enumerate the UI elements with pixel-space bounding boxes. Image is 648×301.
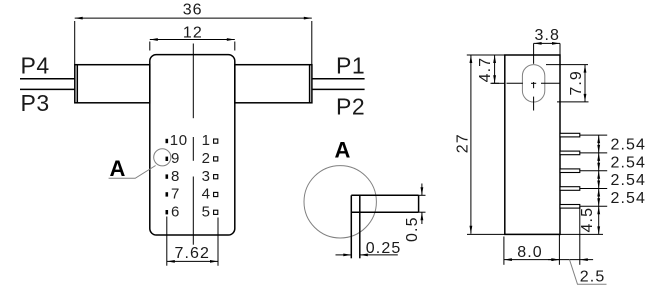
svg-text:7.9: 7.9: [568, 70, 585, 96]
side top extension line: [467, 54, 505, 56]
dimension 3.8: [534, 27, 560, 55]
svg-text:12: 12: [183, 25, 203, 42]
oval vertical centerline: [533, 43, 535, 110]
dimension 27: [454, 55, 472, 234]
pin 2: [202, 150, 218, 167]
svg-text:5: 5: [202, 203, 211, 220]
side pin 3: [560, 169, 580, 173]
svg-text:2.54: 2.54: [611, 154, 647, 171]
side pin 2: [560, 151, 580, 155]
svg-text:2.54: 2.54: [611, 190, 647, 207]
dimension 12: [150, 25, 235, 51]
dimension 4.5: [579, 206, 600, 234]
svg-text:0.5: 0.5: [404, 216, 421, 242]
svg-text:27: 27: [454, 133, 471, 153]
svg-text:3.8: 3.8: [535, 27, 561, 44]
svg-text:A: A: [110, 156, 126, 181]
side pin 4: [560, 187, 580, 191]
side pin 1: [560, 133, 580, 137]
svg-text:6: 6: [171, 203, 180, 220]
svg-text:9: 9: [171, 150, 180, 167]
svg-text:4.5: 4.5: [579, 207, 596, 233]
pin 7: [166, 186, 180, 203]
svg-text:3: 3: [202, 168, 211, 185]
svg-text:7: 7: [171, 186, 180, 203]
pin 8: [166, 168, 180, 185]
dimension 2.54 chain: [597, 135, 646, 207]
dimension 0.5: [404, 184, 426, 242]
svg-text:2.54: 2.54: [611, 137, 647, 154]
right nozzle wires: [312, 79, 365, 90]
side port oval: [522, 65, 544, 102]
pin 5: [202, 203, 218, 220]
detail pin cross-section: [351, 195, 418, 258]
front centerline: [192, 44, 194, 245]
svg-text:4: 4: [202, 186, 211, 203]
dimension 36: [75, 2, 312, 65]
svg-text:2.5: 2.5: [580, 269, 606, 286]
svg-text:7.62: 7.62: [175, 245, 211, 262]
pin 9: [166, 150, 180, 167]
svg-text:8: 8: [171, 168, 180, 185]
svg-text:P1: P1: [336, 53, 365, 79]
left port tube: [75, 65, 150, 103]
dimension 7.62: [167, 217, 218, 266]
svg-text:P3: P3: [21, 90, 50, 116]
svg-text:A: A: [335, 137, 351, 162]
dimension 7.9: [546, 65, 589, 102]
dimension 0.25: [336, 240, 402, 257]
svg-text:P4: P4: [21, 53, 50, 79]
detail A circle: [304, 166, 376, 238]
pin pitch extension lines: [580, 135, 607, 206]
left nozzle wires: [20, 79, 75, 90]
pin 3: [202, 168, 218, 185]
pin 6: [166, 203, 180, 220]
side bottom extension line: [467, 233, 603, 235]
svg-text:10: 10: [170, 132, 188, 149]
pin 4: [202, 186, 218, 203]
dimension 8.0: [504, 234, 560, 264]
label A with leader: [109, 156, 156, 181]
dimension 2.5 with leader: [548, 207, 607, 286]
side body: [505, 55, 560, 234]
side pin 5: [560, 205, 580, 209]
svg-text:P2: P2: [336, 94, 365, 120]
svg-text:2: 2: [202, 150, 211, 167]
pin 1: [202, 132, 218, 149]
svg-text:8.0: 8.0: [517, 244, 543, 261]
dimension 4.7: [477, 55, 505, 83]
right port tube: [235, 65, 312, 103]
svg-text:0.25: 0.25: [366, 240, 402, 257]
front body: [150, 55, 235, 235]
oval horizontal centerline: [491, 82, 560, 84]
svg-text:1: 1: [202, 132, 211, 149]
pin 10: [166, 132, 188, 149]
detail callout circle on pin 9: [154, 149, 171, 166]
svg-text:36: 36: [183, 2, 203, 19]
svg-text:4.7: 4.7: [477, 57, 494, 83]
svg-text:2.54: 2.54: [611, 172, 647, 189]
